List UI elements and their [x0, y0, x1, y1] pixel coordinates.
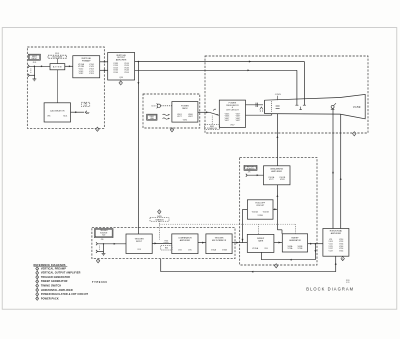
ground (trigger input) [102, 253, 106, 255]
reference diamond 4 (sweep generator) [274, 264, 277, 268]
wire lockout feedback bottom run [161, 271, 336, 273]
horizontal amplifier block [323, 229, 349, 257]
wire sweep feedback to sweep gate [261, 259, 315, 261]
svg-text:V85: V85 [47, 115, 50, 117]
CRT horizontal deflection electrode [331, 105, 334, 108]
jack EXT CRT blanking [246, 174, 247, 177]
legend item diamond 6 HORIZONTAL AMPLIFIER [36, 288, 39, 292]
label S601 POWER ON [205, 125, 220, 130]
wire regulator to CRT electrode lower [246, 114, 272, 116]
trigger section dashed enclosure [92, 228, 235, 259]
wire comparator to trigger multivibrator [198, 242, 206, 244]
reference diamond 7 (power regulator and CRT circuit) [353, 132, 356, 136]
node trigger input junction [103, 243, 104, 244]
svg-text:Q84: Q84 [119, 77, 123, 79]
svg-text:V75A: V75A [287, 247, 293, 250]
switch S601 blade [209, 112, 219, 115]
reference diamond 3 (trigger generator) [96, 259, 99, 263]
svg-text:REFERENCE DIAGRAMS: REFERENCE DIAGRAMS [34, 263, 66, 267]
svg-text:AMPLIFIER: AMPLIFIER [180, 239, 191, 242]
wire AC line cord to power pack [161, 105, 172, 107]
calibrator block [44, 103, 70, 122]
svg-text:V75B: V75B [297, 248, 303, 250]
svg-text:TRIGGER GENERATOR: TRIGGER GENERATOR [41, 276, 70, 279]
legend item diamond 3 TRIGGER GENERATOR [36, 275, 39, 279]
svg-text:POWER ON: POWER ON [207, 128, 218, 130]
wire input to attenuator [29, 65, 50, 67]
label CAL OUT [81, 102, 90, 106]
svg-text:S101: S101 [63, 115, 67, 117]
jack CAL OUT connector [85, 111, 86, 114]
svg-text:PREAMP: PREAMP [82, 59, 91, 62]
sweep section dashed enclosure [240, 157, 317, 265]
svg-text:-1350V: -1350V [275, 94, 282, 96]
wire regulator HV to CRT gun [246, 104, 264, 106]
sweep generator block [282, 234, 307, 252]
jack trigger ground position [96, 250, 97, 253]
svg-text:HORIZONTAL AMPLIFIER: HORIZONTAL AMPLIFIER [41, 289, 73, 292]
wire lockout feedback riser to trigger [160, 259, 162, 272]
switch S601 off contact [213, 109, 216, 111]
wire horizontal amplifier lockout down [335, 256, 337, 272]
wire preamp to output amplifier upper [100, 61, 108, 63]
svg-text:GATE: GATE [258, 240, 264, 243]
svg-text:ATTEN: ATTEN [53, 66, 62, 69]
svg-text:V159: V159 [353, 105, 361, 109]
svg-text:AMPLIFIER: AMPLIFIER [331, 232, 342, 235]
CRT circuit section dashed enclosure [205, 56, 368, 133]
wire lower deflection down to plate [296, 70, 298, 105]
reference diamond 5 (timing switch) [158, 210, 161, 214]
svg-text:V147: V147 [328, 251, 332, 253]
wire preamp to output amplifier lower [100, 69, 108, 71]
svg-text:CRT CIRCUIT: CRT CIRCUIT [226, 110, 239, 112]
label R30 switch [161, 246, 172, 250]
svg-text:V135B: V135B [257, 215, 263, 217]
wire junction down to ground [33, 66, 35, 78]
wire horizontal deflection left [332, 108, 334, 228]
svg-text:VERTICAL PREAMP: VERTICAL PREAMP [41, 267, 66, 270]
jack AC-DC coupling [28, 74, 29, 77]
svg-text:VERTICAL OUTPUT AMPLIFIER: VERTICAL OUTPUT AMPLIFIER [41, 272, 81, 275]
vertical preamp section dashed enclosure [27, 47, 104, 128]
CRT heater [260, 107, 263, 110]
CRT neck top [265, 98, 341, 101]
wire ground jack [97, 250, 103, 252]
wire trigger input to comparator [152, 242, 172, 244]
jack trigger input [96, 242, 97, 245]
reference diamond 2 (vertical output amplifier) [119, 81, 122, 85]
fuse F601 box [147, 114, 157, 120]
linkage drop to sweep gate [258, 224, 260, 234]
wire unblanking amplifier input from sweep gate [276, 185, 278, 230]
wire trigger multivibrator to sweep gate [232, 242, 247, 244]
wire sweep generator to horizontal amplifier [308, 243, 323, 245]
svg-text:V45B: V45B [222, 249, 228, 251]
wire junction to ground [103, 244, 105, 254]
attenuator block [50, 64, 65, 70]
CRT grid electrode [271, 101, 273, 112]
unblanking amplifier block [264, 166, 291, 185]
wire trigger input to trigger input block [97, 243, 126, 245]
svg-text:TIMING SWITCH: TIMING SWITCH [41, 284, 62, 287]
legend item diamond 8 POWER PACK [36, 297, 39, 301]
svg-text:V145A: V145A [252, 211, 259, 214]
svg-text:EXT CRT: EXT CRT [247, 167, 254, 169]
svg-text:POWER REGULATOR & CRT CIRCUIT: POWER REGULATOR & CRT CIRCUIT [41, 293, 89, 296]
wire calibrator output [71, 111, 85, 113]
svg-text:MULTIVIBRATOR: MULTIVIBRATOR [212, 239, 227, 242]
switch trigger source label box [94, 229, 113, 238]
connector J101 VERT INPUT label box [28, 54, 40, 60]
svg-text:S101: S101 [55, 53, 59, 55]
svg-text:AMPLIFIER: AMPLIFIER [116, 59, 127, 62]
CRT focus electrode bars [276, 105, 280, 107]
reference diamond 6 (horizontal amplifier) [341, 257, 344, 261]
wire attenuator to preamp [65, 65, 73, 67]
wire upper vertical deflection signal to CRT [135, 61, 305, 63]
reference diamond 1 (vertical preamp) [96, 127, 99, 131]
svg-text:S20: S20 [102, 234, 105, 236]
legend item diamond 2 VERTICAL OUTPUT AMPLIFIER [36, 271, 39, 275]
svg-text:VOLTS/DIV: VOLTS/DIV [52, 57, 62, 59]
legend item diamond 7 POWER REGULATOR & CRT CIRCUIT [36, 292, 39, 296]
wire horizontal deflection right [340, 114, 342, 228]
comparator amplifier block [172, 234, 198, 254]
node input junction [34, 66, 36, 68]
switch linkage input coupling [30, 69, 32, 74]
CRT cathode end [264, 100, 266, 114]
legend item diamond 5 TIMING SWITCH [36, 284, 39, 288]
wire lower vertical deflection signal to CRT [135, 69, 297, 71]
wire holdoff feedback to trigger multivibrator [243, 208, 248, 210]
holdoff circuit block [247, 200, 273, 219]
svg-text:V135A: V135A [252, 247, 259, 250]
svg-text:AMPLIFIER: AMPLIFIER [271, 170, 282, 173]
ground (input coupling) [33, 78, 37, 80]
svg-text:V694: V694 [183, 119, 187, 121]
trigger input block [126, 234, 152, 254]
reference diamond 8 (power pack) [170, 128, 173, 132]
svg-text:INPUT: INPUT [136, 241, 143, 243]
node sweep output junction [315, 243, 317, 245]
input jack J101 [28, 65, 29, 68]
svg-text:LEVEL: LEVEL [164, 243, 169, 245]
AC wave arrow lower [163, 118, 169, 119]
svg-text:PACK: PACK [182, 107, 188, 110]
CRT funnel [340, 94, 365, 118]
switch linkage trigger coupling [98, 246, 100, 250]
wire sweep feedback down [314, 244, 316, 260]
linkage S101 to attenuator [56, 58, 58, 63]
vertical output amplifier block [108, 53, 135, 81]
switch S101 VOLTS/DIV label [48, 55, 67, 58]
AC wave arrow upper [163, 114, 169, 115]
wire sweep gate to sweep generator [274, 242, 282, 244]
svg-text:V364: V364 [339, 251, 343, 253]
wire holdoff to unblanking line [273, 208, 277, 210]
wire upper deflection down to plate [303, 62, 305, 106]
svg-text:GENERATOR: GENERATOR [289, 239, 301, 242]
vertical deflection plates [295, 104, 298, 106]
svg-text:V45A: V45A [211, 248, 217, 251]
svg-text:R30: R30 [165, 248, 168, 250]
svg-text:T Y P E 3 6 0: T Y P E 3 6 0 [92, 281, 107, 284]
wire S101 linkage to calibrator [56, 70, 58, 103]
linkage drop to sweep generator [295, 224, 297, 234]
switch S601 linkage to label [211, 116, 213, 125]
sweep gate block [247, 234, 274, 252]
svg-text:CIRCUIT: CIRCUIT [256, 205, 265, 207]
svg-text:V145B: V145B [263, 212, 270, 214]
vertical preamp block V133 etc [73, 56, 100, 78]
power regulator and CRT circuit block [219, 100, 245, 127]
svg-text:TIME/DIV: TIME/DIV [155, 219, 164, 221]
label TIME/DIV switch [150, 218, 169, 222]
CRT neck bottom [265, 113, 341, 116]
svg-text:INPUT: INPUT [32, 58, 39, 60]
legend item diamond 1 VERTICAL PREAMP [36, 267, 39, 271]
svg-text:J101: J101 [32, 62, 36, 64]
svg-text:115V: 115V [151, 106, 156, 108]
svg-text:CALIBRATOR: CALIBRATOR [50, 109, 65, 112]
power pack section dashed enclosure [143, 94, 200, 128]
svg-text:BLOCK DIAGRAM: BLOCK DIAGRAM [306, 286, 354, 291]
capacitor HV filter [255, 103, 257, 107]
svg-text:V667: V667 [230, 125, 234, 127]
svg-text:SWEEP GENERATOR: SWEEP GENERATOR [41, 280, 68, 283]
svg-text:V24: V24 [137, 249, 140, 251]
AC line plug symbol [157, 104, 160, 107]
linkage TIME/DIV to sweep section [160, 223, 296, 225]
power pack block V677 etc [172, 102, 198, 123]
connector EXT CRT blanking label box [244, 165, 257, 170]
svg-text:1070: 1070 [346, 282, 350, 284]
trigger multivibrator block [206, 234, 232, 254]
wire ext blanking to unblanking amplifier [247, 174, 263, 176]
wire unblanking to CRT grid [276, 114, 278, 166]
wire coupling jack to ground line [29, 74, 34, 76]
legend item diamond 4 SWEEP GENERATOR [36, 280, 39, 284]
svg-text:POWER PACK: POWER PACK [41, 297, 59, 300]
svg-text:J75: J75 [248, 171, 251, 173]
wire power pack to power switch [198, 111, 209, 113]
svg-text:J30: J30 [101, 239, 104, 241]
linkage time-div to trigger level [159, 221, 161, 240]
node trigger pickoff junction [138, 61, 140, 63]
wire internal trigger pickoff down to trigger input [137, 62, 139, 235]
